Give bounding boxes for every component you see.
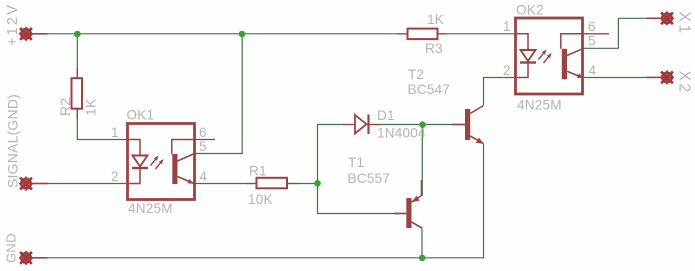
svg-text:6: 6 bbox=[588, 19, 595, 34]
svg-text:2: 2 bbox=[111, 169, 118, 184]
svg-text:1: 1 bbox=[111, 125, 118, 140]
svg-text:5: 5 bbox=[588, 34, 595, 49]
svg-text:4N25M: 4N25M bbox=[128, 201, 173, 216]
svg-text:5: 5 bbox=[199, 139, 206, 154]
svg-text:X2: X2 bbox=[676, 71, 693, 95]
svg-text:R2: R2 bbox=[57, 98, 73, 116]
svg-text:OK2: OK2 bbox=[516, 3, 544, 18]
svg-text:6: 6 bbox=[199, 125, 206, 140]
svg-text:X1: X1 bbox=[676, 12, 693, 36]
svg-text:1K: 1K bbox=[83, 98, 99, 116]
svg-text:10K: 10K bbox=[248, 192, 273, 207]
svg-text:T2: T2 bbox=[408, 67, 424, 82]
svg-text:R3: R3 bbox=[425, 41, 443, 56]
svg-text:1K: 1K bbox=[427, 12, 444, 27]
svg-text:BC547: BC547 bbox=[408, 82, 451, 97]
svg-text:D1: D1 bbox=[377, 108, 395, 123]
svg-text:1N4004: 1N4004 bbox=[377, 126, 426, 141]
svg-text:GND: GND bbox=[4, 233, 19, 263]
svg-text:+12V: +12V bbox=[5, 3, 21, 46]
svg-text:4: 4 bbox=[200, 169, 208, 184]
svg-text:R1: R1 bbox=[249, 164, 267, 179]
svg-text:4: 4 bbox=[589, 63, 597, 78]
svg-text:BC557: BC557 bbox=[348, 171, 391, 186]
svg-text:OK1: OK1 bbox=[127, 108, 155, 123]
svg-text:2: 2 bbox=[503, 63, 510, 78]
svg-text:T1: T1 bbox=[348, 155, 364, 170]
svg-text:1: 1 bbox=[503, 19, 510, 34]
svg-text:SIGNAL(GND): SIGNAL(GND) bbox=[5, 94, 21, 188]
svg-text:4N25M: 4N25M bbox=[517, 98, 562, 113]
